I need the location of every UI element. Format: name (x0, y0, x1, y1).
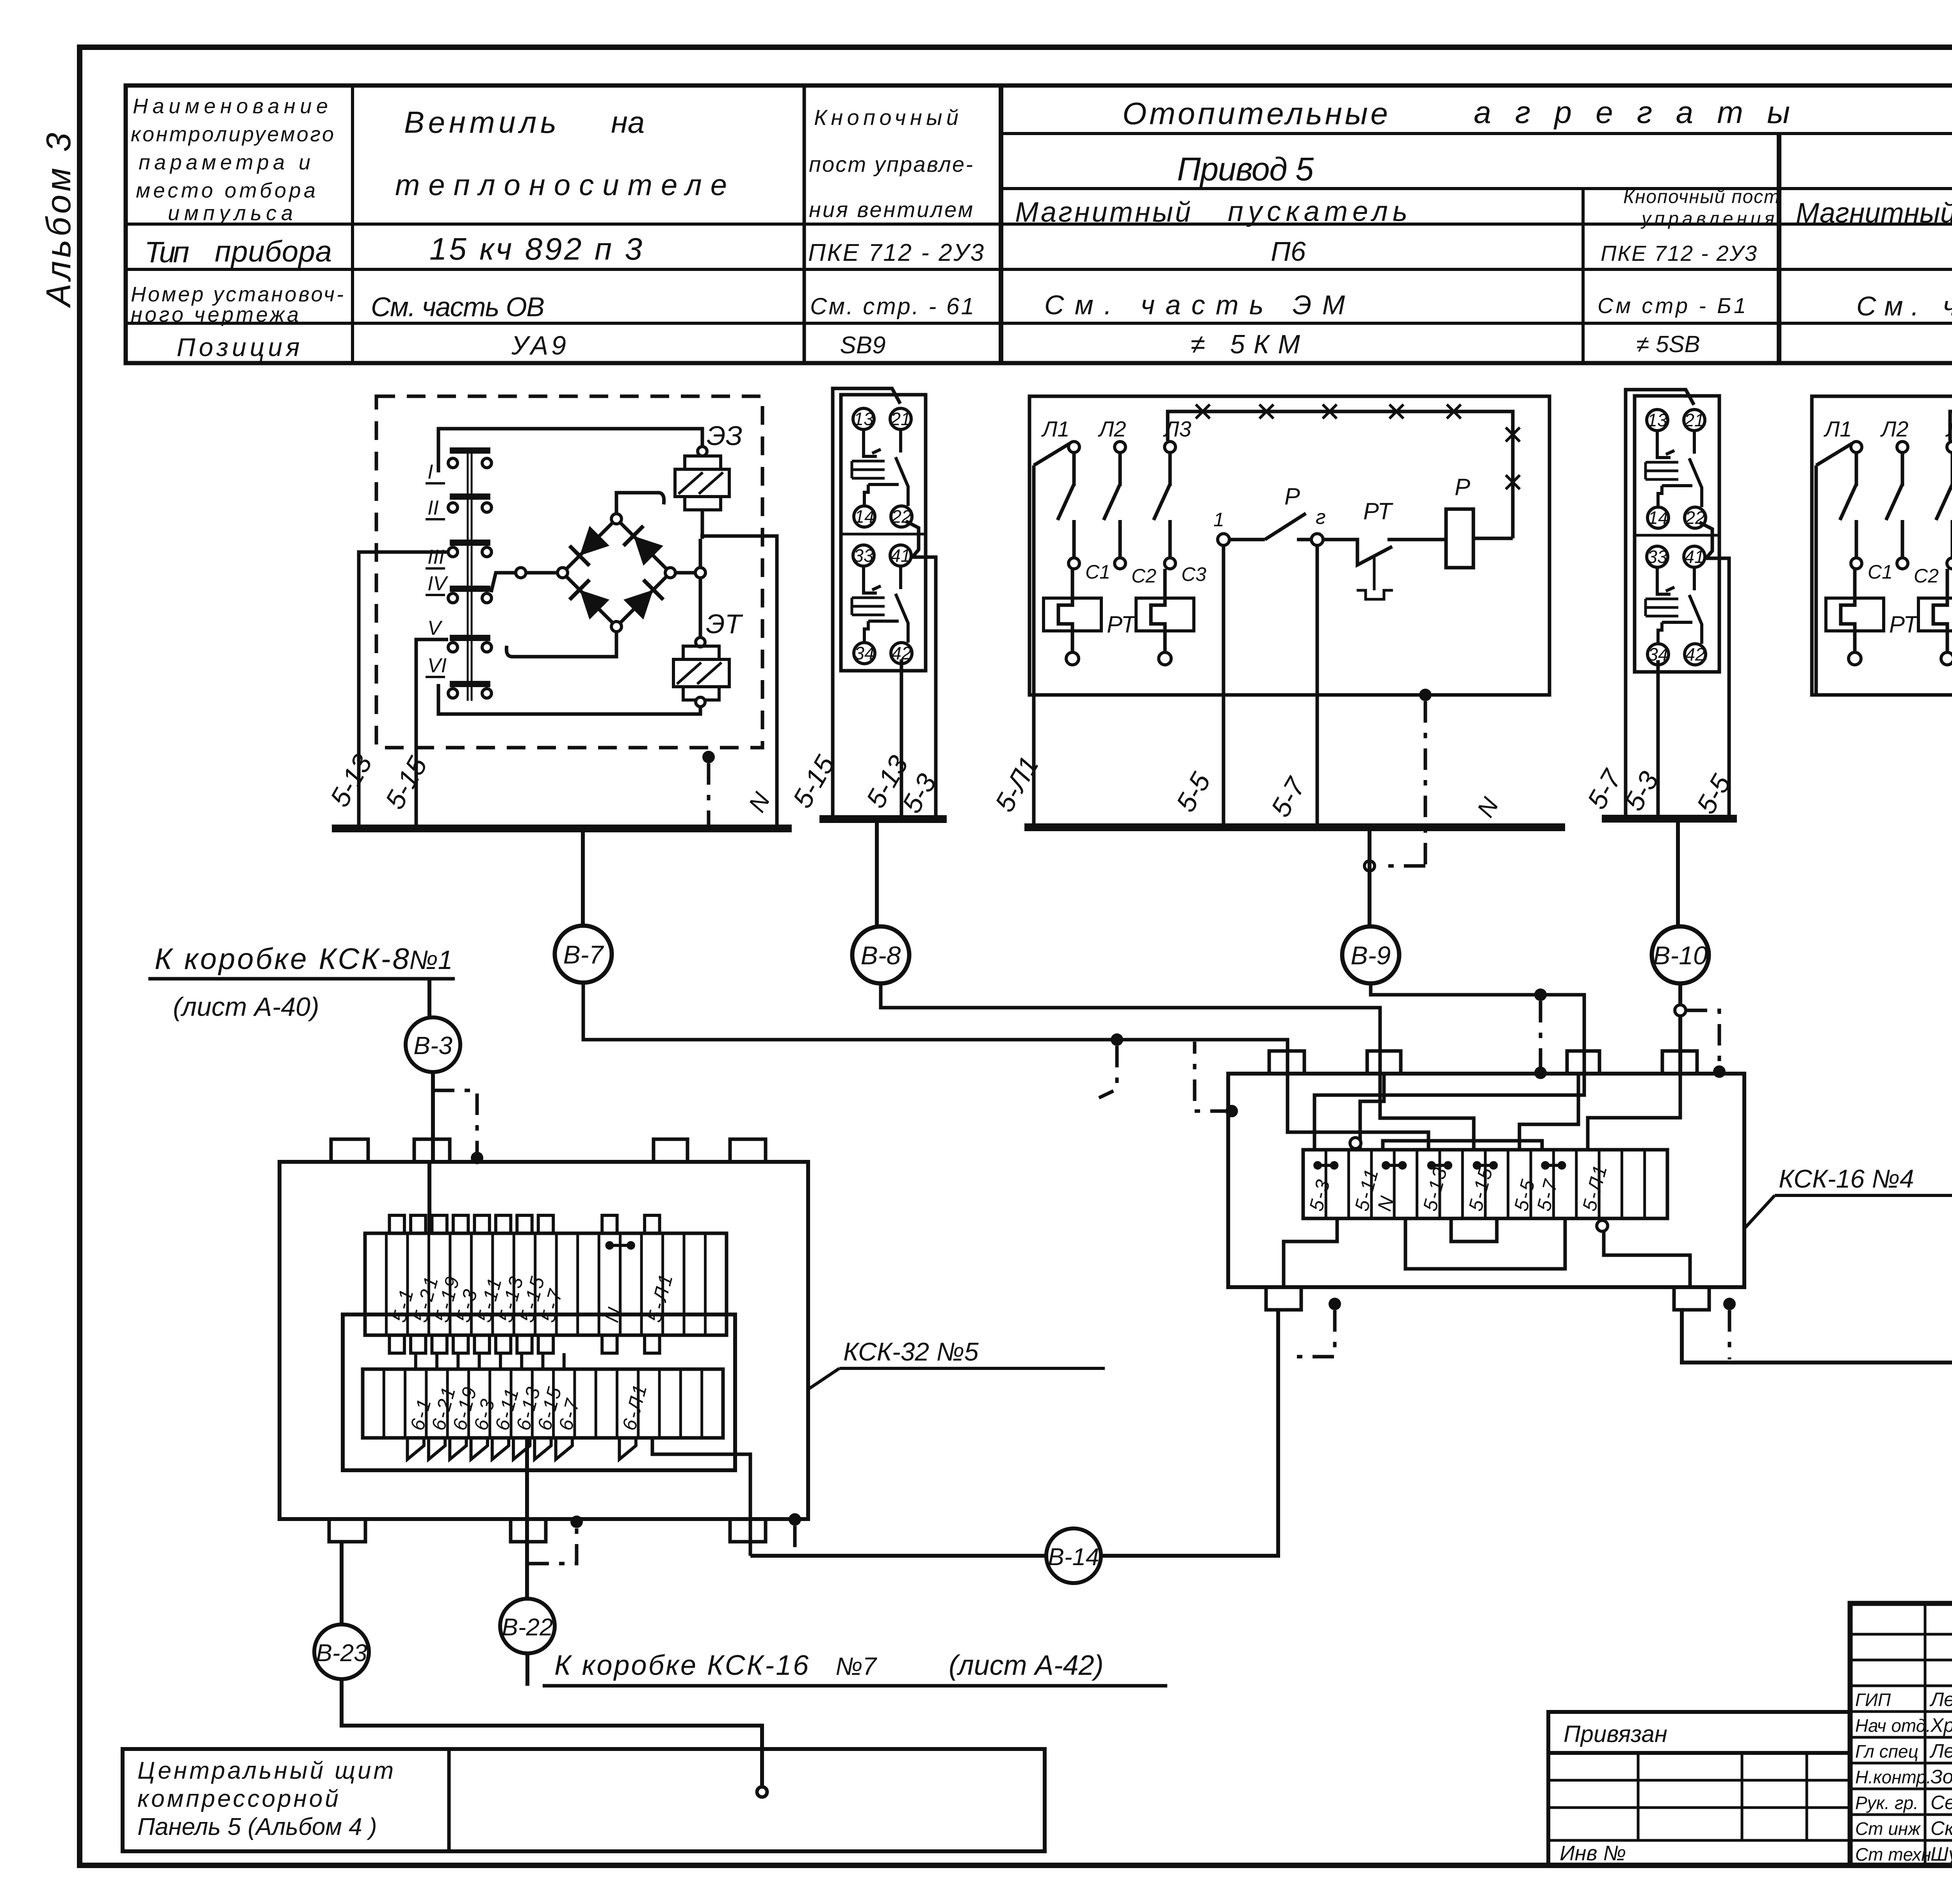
svg-text:Л1: Л1 (1041, 417, 1070, 441)
svg-text:Р: Р (1455, 474, 1470, 500)
svg-text:на: на (611, 105, 645, 139)
top crossed feeder (1168, 411, 1513, 538)
svg-text:Л2: Л2 (1098, 417, 1126, 441)
svg-text:пост управле-: пост управле- (809, 152, 973, 176)
svg-text:Ст инж: Ст инж (1855, 1819, 1921, 1839)
svg-text:прибора: прибора (215, 235, 332, 268)
svg-text:В-3: В-3 (413, 1031, 452, 1060)
svg-text:П6: П6 (1271, 236, 1306, 267)
svg-text:Р: Р (1284, 483, 1300, 509)
terminal strip 6-x (363, 1369, 723, 1438)
svg-text:Позиция: Позиция (177, 333, 300, 362)
svg-text:Н.контр.: Н.контр. (1855, 1767, 1931, 1787)
cable B-7 (555, 926, 612, 983)
thermal contact РТ (1323, 540, 1446, 565)
svg-text:Нач отд.: Нач отд. (1855, 1715, 1931, 1736)
push-button contact pair (1657, 567, 1671, 594)
panel box Центральный щит (123, 1749, 1045, 1851)
incoming diagonal to Л1 (1816, 443, 1852, 465)
svg-text:Привод 5: Привод 5 (1177, 151, 1314, 187)
svg-text:Ст техн: Ст техн (1855, 1844, 1931, 1865)
svg-text:Склярова: Склярова (1931, 1817, 1952, 1839)
svg-text:41: 41 (891, 545, 910, 566)
page border bottom (77, 1863, 1952, 1868)
svg-text:Христофоров: Христофоров (1930, 1714, 1952, 1736)
svg-text:ного чертежа: ного чертежа (131, 303, 299, 326)
svg-text:КСК-16 №4: КСК-16 №4 (1779, 1164, 1914, 1193)
svg-text:С3: С3 (1181, 563, 1206, 585)
svg-text:Золотарева: Золотарева (1931, 1766, 1952, 1788)
svg-text:Леонов: Леонов (1929, 1688, 1952, 1710)
svg-text:№7: №7 (835, 1652, 877, 1680)
svg-text:Кнопочный: Кнопочный (814, 105, 958, 130)
svg-text:21: 21 (1684, 410, 1704, 430)
svg-text:33: 33 (853, 545, 874, 566)
wire ЭЗ-to-ЭТ vertical (701, 510, 704, 539)
svg-text:С1: С1 (1868, 561, 1893, 583)
svg-text:См стр - Б1: См стр - Б1 (1598, 293, 1746, 318)
svg-text:См. стр. - 61: См. стр. - 61 (810, 293, 974, 319)
svg-text:Панель 5 (Альбом 4 ): Панель 5 (Альбом 4 ) (137, 1813, 377, 1840)
box КСК-32 N5 (280, 1162, 808, 1519)
svg-text:ПКЕ 712 - 2У3: ПКЕ 712 - 2У3 (1601, 241, 1757, 265)
svg-text:≠ 5SВ: ≠ 5SВ (1636, 331, 1700, 357)
svg-text:РТ: РТ (1889, 611, 1920, 638)
corridor wires above strip (1288, 1074, 1428, 1150)
heater ЭЗ (698, 447, 707, 456)
svg-text:Центральный щит: Центральный щит (137, 1757, 396, 1784)
cable B-23 path (340, 1542, 344, 1624)
svg-text:С2: С2 (1914, 565, 1939, 587)
svg-text:РТ: РТ (1363, 498, 1394, 524)
svg-text:В-8: В-8 (861, 941, 901, 970)
svg-text:1: 1 (1213, 509, 1224, 531)
wire 5-15 from winding V (416, 639, 448, 828)
svg-text:Гл спец: Гл спец (1855, 1741, 1918, 1762)
svg-text:№1: №1 (409, 945, 452, 975)
wire bridge left to winding (516, 568, 526, 578)
svg-text:параметра и: параметра и (139, 151, 310, 174)
svg-text:Магнитный: Магнитный (1015, 197, 1191, 228)
jumper on N (605, 1241, 614, 1250)
B-14 feed corridor (652, 1438, 750, 1556)
svg-text:К коробке КСК-16: К коробке КСК-16 (554, 1650, 810, 1681)
incoming diagonal to Л1 (1034, 443, 1070, 465)
drops to bus (1222, 545, 1225, 827)
svg-text:I: I (427, 461, 433, 483)
top crossed feeder (1950, 411, 1952, 538)
B-8 wire to КСК-16 (881, 983, 1380, 1074)
svg-text:В-14: В-14 (1048, 1544, 1099, 1571)
svg-text:пускатель: пускатель (1228, 196, 1407, 227)
svg-text:См. часть ОВ: См. часть ОВ (371, 292, 545, 322)
wire: bottom link to ЭТ (438, 684, 700, 714)
svg-text:Седых: Седых (1931, 1792, 1952, 1813)
magnetic starter 5КМ (1029, 396, 1549, 695)
svg-text:V: V (427, 617, 443, 639)
push-button contact pair (864, 566, 877, 593)
svg-text:41: 41 (1684, 547, 1704, 567)
dash-dot at КСК-16 bottom left bump (1329, 1298, 1341, 1310)
svg-text:КСК-32 №5: КСК-32 №5 (843, 1337, 979, 1366)
svg-text:контролируемого: контролируемого (131, 123, 334, 146)
terminal strip 5-x (365, 1233, 727, 1335)
svg-text:33: 33 (1647, 547, 1667, 567)
bridge diodes (580, 526, 609, 556)
wire bridge right (675, 571, 695, 575)
svg-text:21: 21 (890, 409, 910, 429)
dash-dot at КСК-16 bottom right bump (1723, 1298, 1736, 1310)
thermal elements РТ (1826, 598, 1884, 631)
svg-text:Отопительные: Отопительные (1122, 96, 1388, 131)
cable B-13 (1682, 1311, 1952, 1363)
svg-text:Инв №: Инв № (1560, 1842, 1626, 1865)
junction + cable mark below ЭТ (702, 751, 715, 763)
links between strips (414, 1353, 417, 1369)
heater ЭТ (696, 638, 705, 647)
svg-text:УА9: УА9 (511, 331, 566, 360)
button post 5SB (1635, 396, 1719, 672)
button post SB9 (841, 395, 926, 671)
svg-text:К коробке КСК-8: К коробке КСК-8 (155, 942, 411, 976)
svg-text:Левинский: Левинский (1929, 1740, 1952, 1762)
svg-text:РТ: РТ (1107, 611, 1137, 638)
wire N tap (700, 536, 777, 828)
svg-text:Л1: Л1 (1824, 417, 1852, 441)
push-button contact pair (1657, 431, 1671, 458)
cable B-10 (1652, 926, 1709, 983)
jumpers on КСК-16 strip (1313, 1161, 1322, 1170)
svg-text:14: 14 (854, 506, 874, 527)
svg-text:В-10: В-10 (1653, 941, 1708, 970)
svg-text:ПКЕ 712 - 2У3: ПКЕ 712 - 2У3 (808, 239, 984, 266)
svg-text:См. часть ЭМ: См. часть ЭМ (1044, 290, 1345, 320)
svg-text:13: 13 (853, 409, 874, 429)
svg-text:Привязан: Привязан (1564, 1721, 1667, 1747)
svg-text:SВ9: SВ9 (840, 332, 885, 359)
svg-text:Кнопочный пост: Кнопочный пост (1623, 187, 1779, 207)
drop wire to B-7 (581, 828, 585, 926)
dash-dot near B-22 bump (570, 1516, 583, 1528)
magnetic starter 7КМ (1812, 396, 1952, 695)
Привязан box (1548, 1712, 1850, 1753)
svg-text:В-7: В-7 (563, 940, 604, 969)
bridge rectifier (563, 519, 616, 573)
svg-text:III: III (427, 546, 444, 568)
wire bridge bottom (506, 632, 616, 657)
small circles on strip (1350, 1138, 1361, 1149)
cable B-22 (500, 1599, 555, 1653)
svg-text:Шуст: Шуст (1931, 1843, 1952, 1865)
cable B-3 (427, 979, 431, 1017)
svg-text:14: 14 (1648, 508, 1668, 528)
coil Р (1446, 509, 1473, 568)
wire bridge top (616, 493, 664, 514)
B-10 wire to КСК-16 (1678, 983, 1682, 1074)
control: node 1 (1218, 534, 1229, 545)
panel bus (transformer unit) (332, 825, 792, 832)
svg-text:42: 42 (1685, 644, 1705, 664)
left edge wire (1815, 465, 1818, 695)
B-7 wire to КСК-16 (583, 983, 1288, 1074)
svg-text:15 кч 892 п 3: 15 кч 892 п 3 (429, 232, 642, 266)
svg-text:компрессорной: компрессорной (137, 1785, 341, 1812)
dash-dot at box left (1225, 1105, 1238, 1117)
main contacts (1072, 452, 1076, 486)
cable B-14 (750, 1554, 1046, 1558)
contact Р (1229, 538, 1265, 541)
junction with cable continuation (1419, 689, 1432, 701)
svg-text:34: 34 (854, 643, 874, 663)
B-9 wire to КСК-16 (1371, 983, 1584, 1074)
wire: top link to ЭЗ (438, 429, 702, 472)
svg-text:(лист А-42): (лист А-42) (949, 1650, 1104, 1681)
svg-text:Магнитный: Магнитный (1796, 198, 1952, 229)
dash-dot on КСК-32 bottom (789, 1513, 801, 1526)
svg-text:г: г (1316, 506, 1326, 529)
bus under 5SB (1602, 815, 1737, 823)
svg-text:13: 13 (1647, 410, 1667, 430)
corridor wires below strip (1284, 1218, 1337, 1287)
svg-text:II: II (427, 497, 439, 519)
bus (magnetic starter 5КМ) (1024, 823, 1565, 831)
cable B-9 (1342, 926, 1399, 983)
main contacts (1855, 452, 1858, 486)
cable B-8 (852, 926, 909, 983)
terminal strip КСК-16 (1303, 1150, 1667, 1218)
svg-text:VI: VI (427, 654, 447, 677)
page border top (77, 45, 1952, 50)
svg-text:С1: С1 (1085, 561, 1110, 583)
title block (1850, 1603, 1952, 1865)
svg-text:ГИП: ГИП (1855, 1690, 1891, 1710)
B-3 wire into strip (427, 1162, 431, 1233)
angled feet under 6-x strip (408, 1438, 424, 1459)
bus under SB9 (819, 815, 947, 823)
box КСК-16 N4 (1228, 1074, 1744, 1287)
transformer winding taps I-VI (450, 447, 490, 454)
wire 5-13 from winding III (359, 552, 448, 828)
svg-text:Тип: Тип (144, 236, 189, 269)
push-button contact pair (864, 429, 877, 456)
left edge drop (1032, 465, 1036, 827)
svg-text:В-9: В-9 (1351, 941, 1391, 970)
svg-text:Рук. гр.: Рук. гр. (1855, 1793, 1918, 1813)
svg-text:(лист А-40): (лист А-40) (173, 992, 319, 1022)
valve electro unit dashed enclosure (376, 396, 762, 748)
svg-text:ЭТ: ЭТ (706, 609, 743, 639)
svg-text:В-22: В-22 (502, 1614, 553, 1641)
header table frame (126, 85, 1952, 363)
B-22 drop from 6-x strip (525, 1438, 529, 1599)
svg-text:ния вентилем: ния вентилем (809, 197, 973, 222)
svg-text:Л2: Л2 (1880, 417, 1909, 441)
svg-text:ЭЗ: ЭЗ (707, 420, 743, 451)
svg-text:В-23: В-23 (316, 1640, 367, 1667)
page border left (77, 45, 82, 1868)
svg-text:IV: IV (427, 572, 448, 595)
node 2 (1297, 538, 1311, 541)
inner box КСК-32 (343, 1314, 735, 1470)
thermal elements РТ (1044, 598, 1101, 631)
svg-text:С2: С2 (1131, 565, 1156, 587)
transformer core (467, 449, 469, 701)
